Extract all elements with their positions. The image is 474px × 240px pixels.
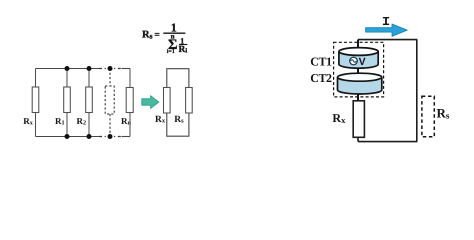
svg-text:CT1: CT1 (310, 55, 332, 69)
svg-text:V: V (359, 56, 366, 68)
resistor Rn (left bank, last branch) (126, 69, 133, 137)
resistor Rx (right circuit) (353, 101, 364, 138)
wire: left bank top bus (right solid part) (122, 68, 131, 70)
resistor Rs (equivalent circuit) (186, 88, 193, 114)
svg-text:Rx: Rx (332, 111, 346, 125)
resistor Rs (dashed outline, right circuit) (422, 96, 434, 137)
equivalence arrow (teal, points right) (142, 96, 159, 109)
svg-text:Rx: Rx (155, 115, 166, 125)
resistor R1 (left bank, branch 2) (64, 69, 71, 137)
wire: equivalent-circuit bottom loop (167, 113, 189, 136)
svg-text:CT2: CT2 (310, 71, 332, 85)
wire: right circuit right side (416, 40, 418, 142)
wire: left bank bottom bus (right solid part) (122, 136, 131, 138)
svg-text:Rs=: Rs= (142, 29, 160, 40)
svg-text:R2: R2 (77, 116, 87, 127)
resistor Rx (equivalent circuit) (164, 88, 171, 114)
wire: equivalent-circuit top loop (167, 69, 189, 88)
svg-text:Rs: Rs (437, 106, 450, 121)
voltmeter V symbol (inside CT1) (350, 56, 366, 68)
wire: left bank top bus (dash-dot continuation break) (99, 68, 122, 70)
wire: right circuit top (358, 39, 417, 41)
wire: left bank bottom bus (dash-dot continuation break) (99, 136, 122, 138)
wire: left bank top bus (solid part) (36, 68, 100, 70)
node: junction dashed branch / bottom bus (108, 134, 113, 139)
wire: step from Rx bottom to bottom wire (357, 137, 359, 142)
svg-text:i=1: i=1 (167, 48, 175, 55)
node: junction R1 / bottom bus (65, 134, 70, 139)
node: junction dashed branch / top bus (108, 66, 113, 71)
label I (current) (383, 17, 389, 25)
wire: left bank bottom bus (solid part) (36, 136, 100, 138)
resistor (ellipsis branch, dashed, unlabeled) (105, 69, 114, 137)
resistor Rx (left bank, branch 1) (32, 69, 39, 137)
wire: stub from CT2 bottom to Rx (357, 93, 359, 102)
node: junction R2 / bottom bus (87, 134, 92, 139)
svg-text:Rs: Rs (174, 115, 184, 125)
wire: right circuit bottom (358, 141, 417, 143)
node: junction R1 / top bus (65, 66, 70, 71)
wire: stub between CT1 and CT2 (357, 67, 359, 75)
resistor R2 (left bank, branch 3) (86, 69, 93, 137)
node: junction R2 / top bus (87, 66, 92, 71)
dashed enclosure around CT1/CT2 (334, 42, 384, 97)
svg-text:Ri: Ri (179, 45, 188, 55)
current arrow I (blue) (366, 24, 408, 36)
equation Rs = 1 / (sum i=1..n of 1/Ri) (142, 20, 187, 55)
svg-text:Rx: Rx (23, 116, 34, 127)
wire: stub from CT1 top to top wire (357, 40, 359, 48)
current transformer CT2 (cylinder) (338, 73, 382, 94)
svg-text:R1: R1 (55, 116, 65, 127)
current transformer CT1 (cylinder) (339, 48, 378, 69)
